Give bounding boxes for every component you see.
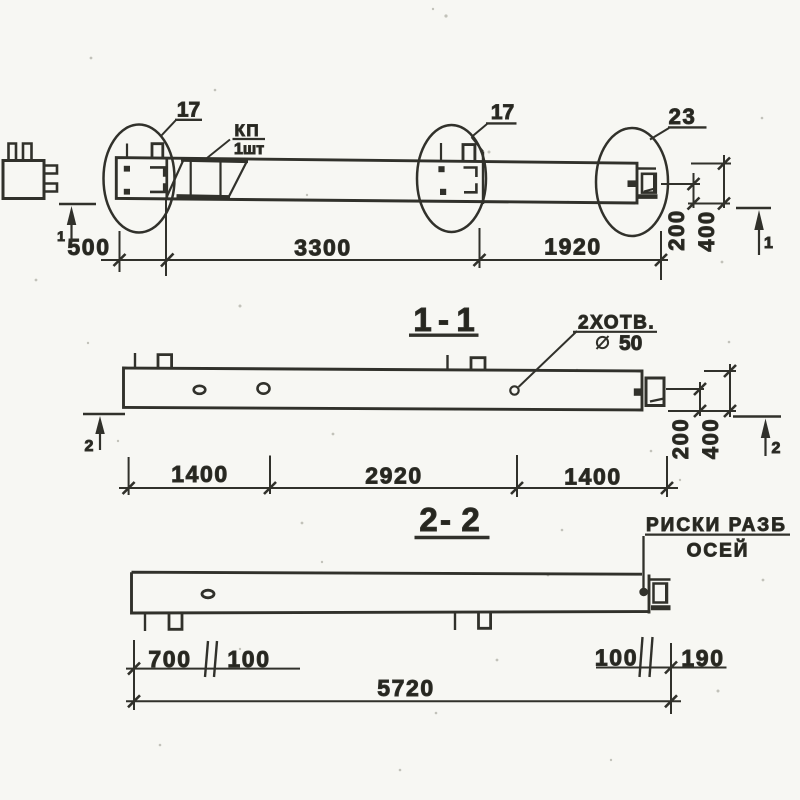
svg-text:2ХОТВ.: 2ХОТВ. [578,313,655,334]
embedded plate right edge (item 17 left) [165,158,168,198]
double ticks right [640,637,653,677]
loop tick 1-1 a [134,353,136,368]
hole ring 1 [194,386,206,394]
section marker 1 (left) [57,204,96,244]
plate dot 1 [124,166,130,172]
svg-text:400: 400 [694,210,719,252]
svg-text:100: 100 [595,645,638,671]
svg-text:23: 23 [669,104,697,129]
svg-text:3300: 3300 [294,235,352,261]
svg-text:-: - [438,301,449,338]
2 holes d50 label [519,313,658,388]
svg-text:2: 2 [85,438,94,455]
loop square 1-1 a [158,355,172,369]
end-view right tab 1 [44,166,57,174]
svg-text:400: 400 [698,418,723,460]
svg-text:200: 200 [664,209,689,251]
balloon ellipse 23 right [596,128,668,236]
svg-text:ОСЕЙ: ОСЕЙ [687,540,750,562]
mid plate edge vertical [482,152,484,205]
label 23 [650,104,707,140]
svg-text:17: 17 [177,99,200,122]
hole ring 2 [258,383,270,393]
right end detail 2-2 [639,536,670,608]
svg-text:1: 1 [764,235,773,252]
mid plate dot 2 [440,189,446,195]
beam end cross-section square [3,161,44,199]
mid hidden bracket [464,168,477,178]
dim row 500 / 3300 / 1920 [101,200,668,280]
svg-text:500: 500 [67,234,110,260]
slashes [128,662,677,708]
console KP parallelogram [166,160,248,198]
svg-text:1шт: 1шт [234,141,264,158]
end view block at far left [3,144,57,199]
svg-text:200: 200 [668,418,693,460]
svg-text:100: 100 [227,646,270,672]
beam outline (plan) [116,158,637,203]
mid plate loop tick [440,143,442,160]
svg-text:190: 190 [681,645,724,671]
svg-text:1400: 1400 [564,464,622,490]
loop tick 2-2 b [454,613,456,630]
svg-text:17: 17 [491,101,514,124]
dim row 1400/2920/1400 [119,455,678,497]
beam outline 2-2 [132,572,651,613]
vertical dims 200/400 (plan right) [661,155,731,208]
label 17 mid [472,101,517,152]
double ticks left [205,641,217,677]
svg-text:КП: КП [235,121,261,140]
loop square 1-1 b [471,358,485,371]
dim rows 2-2 [126,640,727,714]
svg-text:1: 1 [456,301,474,338]
svg-text:1: 1 [413,301,431,338]
svg-text:700: 700 [148,646,191,672]
right end notch detail (plan) [628,169,658,197]
loop square (plan, left) [152,144,163,158]
loop tick 1-1 b [446,355,448,370]
mid plate dot 1 [438,166,444,172]
balloon ellipse 17 left [104,125,175,233]
plate dot 2 [124,189,130,195]
section marker 2 (1-1 left) [83,414,125,455]
end-view top tab 2 [23,144,32,161]
svg-text:2: 2 [461,501,479,538]
beam outline 1-1 [124,368,643,410]
section marker 2 (1-1 right) [733,417,781,458]
label 17 left [161,99,203,137]
title 1-1 [409,301,479,338]
loop tick (plan, left) [126,144,128,158]
loop tick 2-2 a [144,614,146,631]
hole ring 3 (drilled 50) [510,386,518,394]
svg-text:-: - [440,501,451,538]
end-view right tab 2 [44,184,57,192]
svg-text:50: 50 [619,332,642,355]
end-view top tab 1 [9,144,17,161]
axis marks label [645,515,790,562]
KP label [207,121,265,158]
svg-text:1400: 1400 [171,461,229,487]
vertical dims 200/400 (1-1 right) [666,364,736,417]
svg-text:5720: 5720 [377,675,435,701]
loop square 2-2 b [479,613,491,628]
svg-text:1920: 1920 [544,234,602,260]
plate hidden bracket [150,167,164,176]
hole ring 2-2 [202,590,214,598]
svg-text:2920: 2920 [365,463,423,489]
mid loop square [463,145,475,161]
svg-text:2: 2 [772,440,781,457]
section marker 1 (right) [736,208,773,255]
svg-text:РИСКИ РАЗБ: РИСКИ РАЗБ [646,515,787,536]
title 2-2 [415,501,490,538]
svg-text:2: 2 [419,501,437,538]
svg-text:1: 1 [57,228,65,244]
loop square 2-2 a [169,614,182,629]
balloon ellipse 17 mid [417,125,486,232]
right end notch 1-1 [634,378,664,406]
